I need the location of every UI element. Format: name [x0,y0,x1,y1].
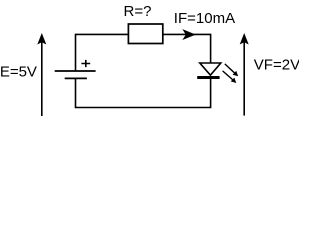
LED emission arrow 2 [223,71,235,81]
LED D1 cathode bar [197,76,219,79]
LED D1 (triangle) [200,63,221,75]
svg-text:E=5V: E=5V [0,63,37,80]
LED emission arrow 1 [225,64,236,74]
resistor R (box) [128,24,162,44]
voltage arrow VF (up arrow, right) [243,42,245,116]
battery E1 negative plate (short) [65,77,87,79]
wire: bottom from battery to LED cathode [76,78,211,107]
wire: resistor to top-right corner, down to LED anode [163,34,211,63]
svg-text:IF=10mA: IF=10mA [174,10,235,27]
voltage arrow E (up arrow, left) [41,42,43,116]
current arrow IF (arrowhead on top wire) [184,30,195,39]
svg-text:VF=2V: VF=2V [254,57,299,74]
svg-text:R=?: R=? [124,3,152,20]
battery E1 positive plate (long) [55,70,96,72]
wire: top-left from battery to resistor [76,34,129,71]
battery plus sign [81,60,90,67]
